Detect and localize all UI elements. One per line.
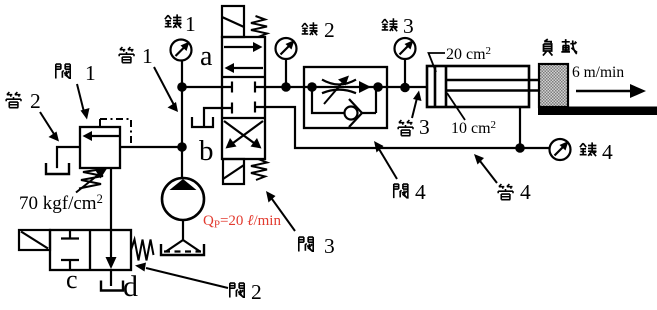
svg-text:3: 3 xyxy=(324,234,335,258)
svg-text:d: d xyxy=(123,270,138,303)
valve2 return spring xyxy=(131,240,154,261)
svg-text:2: 2 xyxy=(324,18,335,42)
tank at relief outlet xyxy=(46,163,69,174)
relief valve spring with adjust arrow xyxy=(76,169,107,193)
valve3 body (3-position 4-way) xyxy=(222,37,265,159)
relief valve internal arrow xyxy=(90,135,119,137)
svg-text:1: 1 xyxy=(85,61,96,85)
svg-text:10 cm2: 10 cm2 xyxy=(451,119,496,137)
svg-text:2: 2 xyxy=(30,89,41,113)
valve2 position c blocked ports xyxy=(61,230,79,270)
wire: A-port line to cylinder (pipe 3) xyxy=(265,86,427,88)
svg-text:20 cm2: 20 cm2 xyxy=(446,45,491,63)
callout 管1 xyxy=(119,44,178,112)
svg-text:1: 1 xyxy=(142,44,153,68)
callout 管2 xyxy=(6,89,59,142)
wire: relief valve inlet line xyxy=(120,146,182,148)
relief valve pilot dashed line xyxy=(100,119,131,146)
valve2 position d flow arrow xyxy=(110,230,112,258)
wire: gauge2 stub xyxy=(285,59,287,87)
svg-text:70 kgf/cm2: 70 kgf/cm2 xyxy=(19,192,103,214)
node: flow valve right xyxy=(373,82,383,92)
label 錶 1 xyxy=(165,12,196,36)
speed arrow 6 m/min xyxy=(576,90,633,93)
wire: gauge3 stub xyxy=(404,59,406,88)
svg-text:2: 2 xyxy=(251,280,262,304)
wire: relief vent line down to valve2 xyxy=(110,168,112,230)
svg-text:a: a xyxy=(200,41,213,72)
svg-text:6 m/min: 6 m/min xyxy=(572,64,624,81)
tank at valve3 drain xyxy=(192,117,213,127)
load block xyxy=(539,64,568,107)
svg-text:3: 3 xyxy=(419,115,430,139)
node: gauge2 tap xyxy=(281,82,291,92)
piston rod xyxy=(446,80,539,91)
wire: pump suction line xyxy=(182,220,184,240)
svg-text:1: 1 xyxy=(185,12,196,36)
valve3 bottom solenoid xyxy=(223,159,244,184)
piston xyxy=(435,66,446,107)
wire: B-port line (pipe 4) xyxy=(265,107,550,148)
pump P1 xyxy=(162,178,204,220)
label 20 cm2 with pointer xyxy=(429,53,446,72)
wire: pump discharge line (pipe 1) vertical xyxy=(181,61,183,178)
svg-text:c: c xyxy=(66,265,78,294)
relief valve (valve1) body xyxy=(80,127,120,168)
label 負載 xyxy=(543,39,577,55)
wire: pressure line to valve3 P port xyxy=(182,86,222,88)
flow direction arrowhead xyxy=(359,81,371,93)
gauge 4 xyxy=(550,139,571,160)
callout 閥3 xyxy=(266,191,335,258)
node: gauge3 tap / pipe3 xyxy=(400,83,410,93)
svg-text:b: b xyxy=(199,135,214,167)
label 10 cm2 with pointer xyxy=(447,93,465,120)
ground bar xyxy=(538,107,657,116)
flow control valve (valve4) box xyxy=(304,67,387,128)
node: flow valve left xyxy=(307,82,317,92)
gauge 2 xyxy=(276,38,297,59)
valve2 solenoid box xyxy=(19,230,50,250)
valve3 top solenoid xyxy=(222,6,244,37)
node: junction pump/gauge1/valve3 xyxy=(177,82,187,92)
label 錶 2 xyxy=(302,18,335,42)
callout 管3 xyxy=(398,91,430,140)
wire: relief valve outlet to tank xyxy=(57,147,80,167)
callout 管4 xyxy=(474,154,531,204)
callout 閥2 xyxy=(135,263,262,305)
valve2 tank xyxy=(110,270,112,286)
tank under pump xyxy=(161,244,204,255)
callout 閥1 xyxy=(56,61,96,120)
pump suction strainer funnel xyxy=(164,240,201,252)
valve2 (solenoid 2-position) body xyxy=(50,230,131,270)
valve3 bottom spring xyxy=(251,159,267,180)
label 錶 3 xyxy=(382,14,414,38)
gauge 1 xyxy=(171,40,192,61)
valve3 top spring xyxy=(251,16,267,37)
throttle arcs xyxy=(322,80,356,94)
svg-text:4: 4 xyxy=(520,180,531,204)
node: junction pump/relief xyxy=(177,142,187,152)
svg-text:4: 4 xyxy=(415,180,426,204)
svg-text:3: 3 xyxy=(403,14,414,38)
wire: valve3 tank drain line xyxy=(204,108,222,125)
bypass line with check valve xyxy=(312,87,344,113)
wire: cylinder rod-side drop line xyxy=(519,107,521,148)
throttle adjust arrow xyxy=(324,83,342,104)
cylinder body xyxy=(427,66,529,107)
gauge 3 xyxy=(395,38,416,59)
label 錶 4 xyxy=(580,140,613,164)
callout 閥4 xyxy=(374,141,426,204)
svg-text:4: 4 xyxy=(602,140,613,164)
valve3 position a: parallel arrows xyxy=(224,42,263,73)
valve3 center position: blocked ports xyxy=(222,82,265,114)
valve3 position b: crossed arrows xyxy=(224,121,263,149)
relief valve pilot stub xyxy=(99,119,101,127)
node: pipe4 / gauge4 tap xyxy=(515,143,525,153)
